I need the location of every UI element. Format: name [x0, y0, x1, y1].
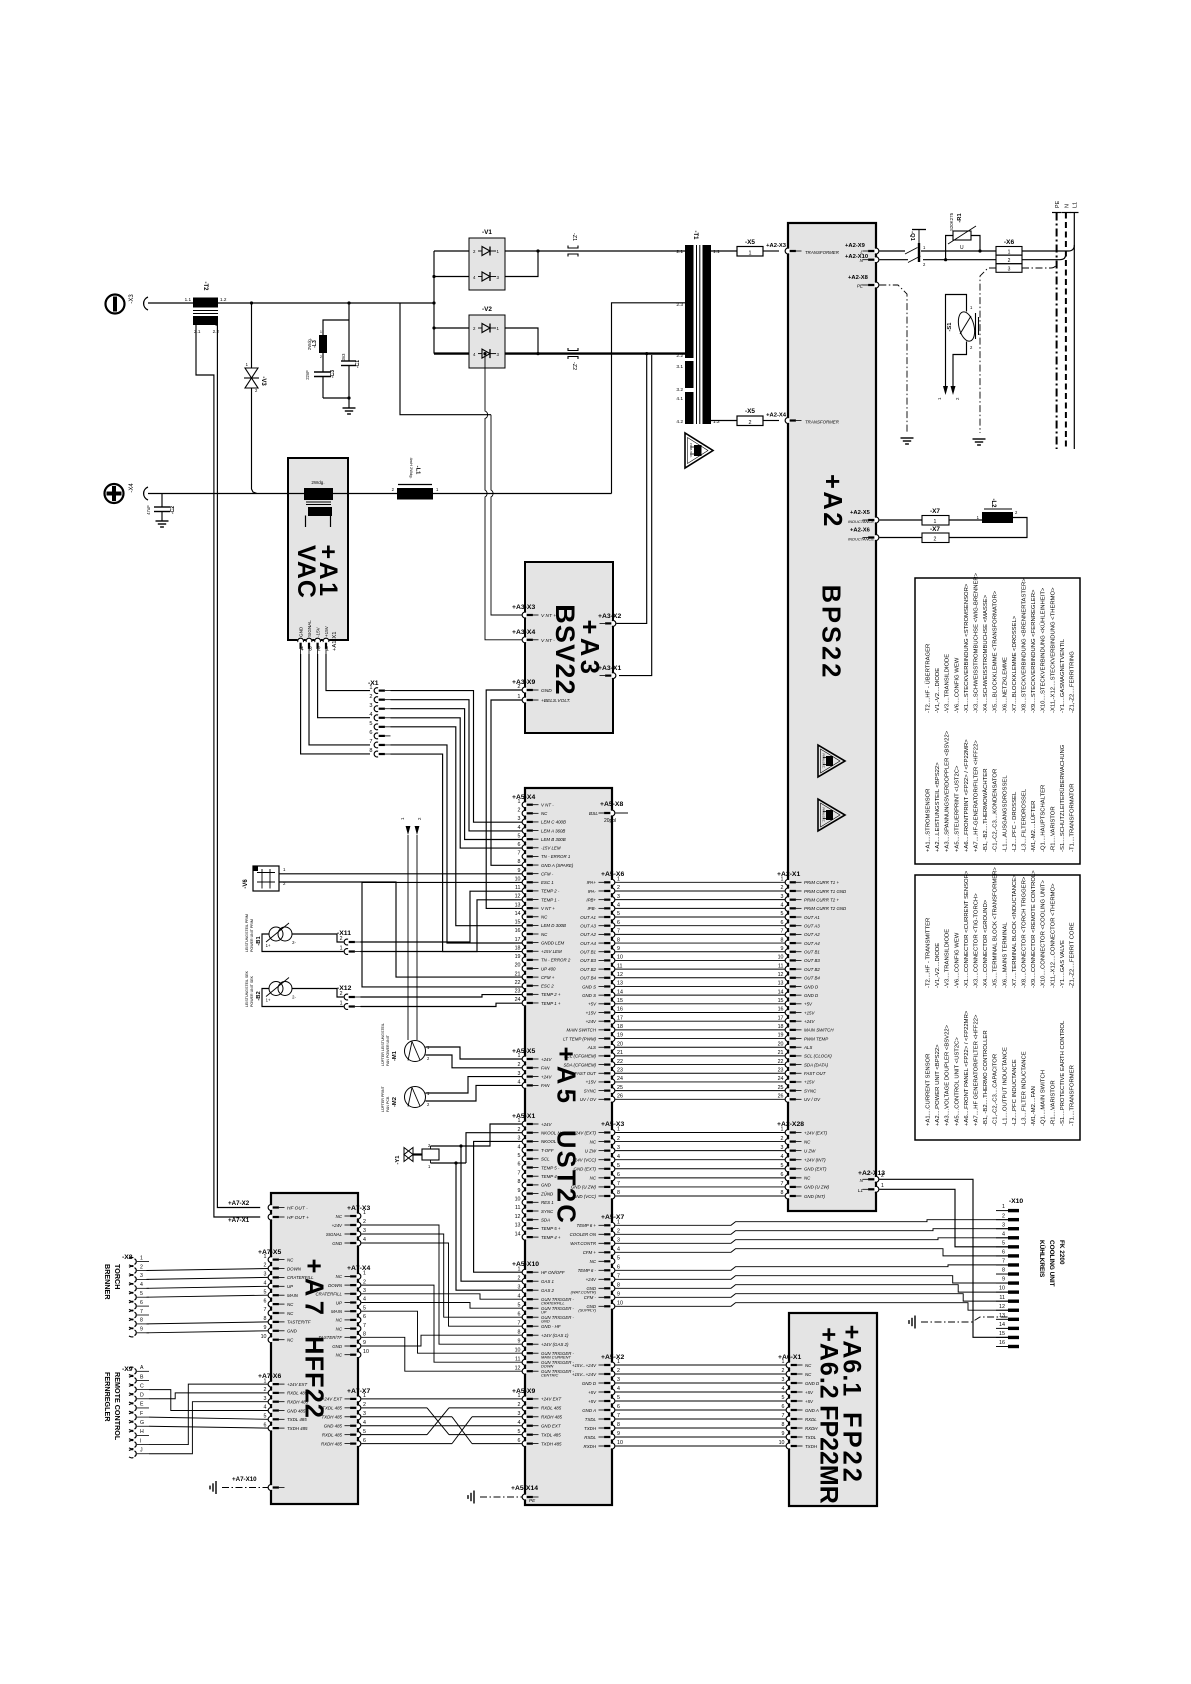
- svg-text:MAIN: MAIN: [331, 1309, 343, 1314]
- svg-text:NC: NC: [336, 1274, 343, 1279]
- svg-text:NC: NC: [541, 932, 548, 937]
- wires: -X1 to +A5-X4 (sensor bundle): [391, 691, 523, 952]
- svg-text:OUT A4: OUT A4: [804, 941, 820, 946]
- svg-text:2: 2: [363, 1279, 366, 1285]
- svg-text:1: 1: [617, 1127, 620, 1133]
- svg-text:+A3-X3: +A3-X3: [512, 604, 535, 611]
- wires: +A3-X9 to +A5-X4: [486, 690, 522, 908]
- svg-text:-V3....TRANSILDIODE: -V3....TRANSILDIODE: [945, 929, 951, 988]
- svg-text:REMOTE CONTROL: REMOTE CONTROL: [113, 1372, 122, 1441]
- svg-text:16: 16: [999, 1340, 1005, 1346]
- connector +A6-X1: [778, 1354, 820, 1449]
- svg-text:+24V (GAS 1): +24V (GAS 1): [541, 1333, 569, 1338]
- svg-text:6: 6: [518, 1311, 521, 1317]
- svg-text:-X7....TERMINAL BLOCK <INDUCTA: -X7....TERMINAL BLOCK <INDUCTANCE>: [1012, 874, 1018, 988]
- svg-text:HF ON/OFF: HF ON/OFF: [541, 1270, 565, 1275]
- svg-text:-L3....FILTERDROSSEL: -L3....FILTERDROSSEL: [1022, 788, 1028, 852]
- svg-text:RXDH: RXDH: [584, 1444, 597, 1449]
- main transformer -T1: [676, 231, 720, 426]
- svg-text:+A7-X3: +A7-X3: [347, 1205, 370, 1212]
- svg-text:VAC: VAC: [292, 545, 320, 599]
- svg-text:RES 1: RES 1: [541, 1200, 554, 1205]
- svg-text:C: C: [140, 1383, 144, 1389]
- svg-text:9: 9: [518, 1188, 521, 1194]
- svg-text:1: 1: [1002, 1204, 1005, 1210]
- svg-text:L1: L1: [858, 1188, 864, 1193]
- mains terminal -X6: [996, 239, 1022, 273]
- fan -M2: [381, 1077, 522, 1112]
- svg-text:5: 5: [518, 1153, 521, 1159]
- svg-text:GAS 2: GAS 2: [541, 1288, 554, 1293]
- svg-text:+A7-X4: +A7-X4: [347, 1265, 370, 1272]
- wires: +A5-X7 to -X10: [615, 1220, 1008, 1311]
- svg-text:20: 20: [617, 1041, 623, 1047]
- pin +A2-X3 TRANSFORMER: [766, 243, 840, 255]
- svg-text:5: 5: [369, 721, 372, 727]
- svg-text:+A2....POWER UNIT <BPS22>: +A2....POWER UNIT <BPS22>: [935, 1044, 941, 1126]
- svg-text:5: 5: [363, 1429, 366, 1435]
- wires: -Y1 to +A5: [431, 1124, 523, 1290]
- svg-text:-V6: -V6: [243, 879, 249, 889]
- svg-text:-X7: -X7: [930, 508, 940, 515]
- svg-text:+15V LEM: +15V LEM: [541, 949, 562, 954]
- voltage doubler block +A3 BSV22: [525, 562, 613, 733]
- svg-text:5: 5: [518, 1302, 521, 1308]
- svg-text:FAN: FAN: [541, 1083, 550, 1088]
- svg-text:TXDH: TXDH: [584, 1426, 597, 1431]
- svg-text:NC: NC: [590, 1259, 597, 1264]
- svg-text:3: 3: [369, 703, 372, 709]
- svg-text:2-: 2-: [292, 940, 296, 945]
- svg-text:TXDL: TXDL: [805, 1435, 817, 1440]
- svg-text:PE: PE: [1055, 200, 1061, 208]
- svg-text:-X3: -X3: [129, 294, 135, 304]
- svg-text:ALS: ALS: [803, 1045, 812, 1050]
- capacitor -C2 47uF: [146, 494, 176, 522]
- svg-text:NC: NC: [805, 1372, 812, 1377]
- svg-text:7: 7: [518, 1170, 521, 1176]
- svg-text:+24V EXT: +24V EXT: [541, 1397, 561, 1402]
- svg-text:23: 23: [617, 1067, 623, 1073]
- svg-text:-Z2: -Z2: [571, 362, 577, 370]
- svg-text:5: 5: [518, 833, 521, 839]
- svg-text:TEMP 2 +: TEMP 2 +: [541, 992, 561, 997]
- svg-text:TEMP 5 -: TEMP 5 -: [541, 1165, 560, 1170]
- svg-text:5: 5: [264, 1289, 267, 1295]
- current transformer icon in +A1: [304, 480, 333, 527]
- svg-text:TXDH 485: TXDH 485: [322, 1415, 343, 1420]
- svg-text:RXDL: RXDL: [584, 1435, 596, 1440]
- svg-text:+A3....VOLTAGE DOUPLER <BSV22>: +A3....VOLTAGE DOUPLER <BSV22>: [945, 1024, 951, 1126]
- svg-text:3: 3: [363, 1411, 366, 1417]
- svg-text:+A7-X1: +A7-X1: [228, 1217, 250, 1224]
- svg-text:PRIM./SEC.: PRIM./SEC.: [822, 753, 826, 768]
- svg-text:4: 4: [518, 1293, 521, 1299]
- svg-text:-V2: -V2: [482, 306, 492, 313]
- svg-text:CFM +: CFM +: [583, 1250, 597, 1255]
- svg-text:GND: GND: [287, 1329, 298, 1334]
- svg-text:TEMP 1 -: TEMP 1 -: [541, 897, 560, 902]
- wires: +A5-X6 to +A2-X1: [615, 882, 785, 1099]
- svg-text:PRIM CURR T1 +: PRIM CURR T1 +: [804, 880, 839, 885]
- svg-text:-X4: -X4: [129, 483, 135, 493]
- svg-text:PRIM./SEC.: PRIM./SEC.: [822, 807, 826, 822]
- svg-text:3: 3: [518, 816, 521, 822]
- svg-text:8: 8: [1002, 1268, 1005, 1274]
- svg-text:-X5: -X5: [745, 239, 755, 246]
- svg-text:1: 1: [781, 877, 784, 883]
- svg-text:FP22MR: FP22MR: [815, 1405, 843, 1504]
- svg-text:3: 3: [363, 1228, 366, 1234]
- svg-text:GND (U ZW): GND (U ZW): [571, 1185, 597, 1190]
- wires: +A5-X2 to +A6-X1: [615, 1365, 786, 1446]
- svg-text:3: 3: [782, 1377, 785, 1383]
- svg-text:1: 1: [749, 251, 752, 257]
- svg-text:+A2-X9: +A2-X9: [845, 243, 866, 249]
- svg-text:INDUCTANCE: INDUCTANCE: [848, 519, 874, 524]
- svg-text:TEMP 2 -: TEMP 2 -: [541, 889, 560, 894]
- svg-text:-X1....CONNECTOR <CURRENT SENS: -X1....CONNECTOR <CURRENT SENSOR>: [964, 870, 970, 988]
- remote connector -X9: [122, 1365, 149, 1458]
- filter network -L3 -C1 -C3: [305, 301, 361, 408]
- svg-text:GND 485: GND 485: [287, 1408, 306, 1413]
- svg-text:OUT B1: OUT B1: [804, 950, 820, 955]
- svg-text:GND S: GND S: [582, 984, 596, 989]
- svg-text:-Z1: -Z1: [571, 233, 577, 241]
- label KUEHLKREIS COOLING UNIT FK 2200: [1038, 1240, 1065, 1287]
- HF transformer -T2: [185, 282, 227, 335]
- svg-text:LEM C 400B: LEM C 400B: [541, 820, 566, 825]
- svg-text:14: 14: [999, 1322, 1005, 1328]
- svg-text:4: 4: [363, 1297, 366, 1303]
- svg-text:6: 6: [518, 1162, 521, 1168]
- svg-text:1: 1: [264, 1254, 267, 1260]
- svg-text:GND D: GND D: [804, 984, 819, 989]
- svg-text:TEMP 4 -: TEMP 4 -: [541, 1174, 560, 1179]
- svg-text:11: 11: [515, 1205, 521, 1211]
- svg-text:-X11,-X12....CONNECTOR <THERMO: -X11,-X12....CONNECTOR <THERMO>: [1050, 883, 1056, 988]
- svg-text:+5V: +5V: [805, 1390, 814, 1395]
- svg-text:+A3-X1: +A3-X1: [598, 665, 621, 672]
- svg-text:RXDL 485: RXDL 485: [287, 1391, 308, 1396]
- pin +A2-X10 N: [845, 254, 879, 263]
- svg-text:CFM -: CFM -: [541, 871, 554, 876]
- svg-text:2: 2: [264, 1263, 267, 1269]
- svg-text:2: 2: [518, 1275, 521, 1281]
- svg-text:26: 26: [617, 1094, 623, 1100]
- svg-text:-Y1: -Y1: [395, 1155, 401, 1165]
- front panel block +A6.1 FP22 / +A6.2 FP22MR: [789, 1313, 877, 1506]
- svg-text:14: 14: [515, 911, 521, 917]
- svg-text:T-OFF: T-OFF: [541, 1148, 554, 1153]
- svg-text:3: 3: [781, 894, 784, 900]
- svg-text:8: 8: [518, 1179, 521, 1185]
- svg-text:6: 6: [617, 1404, 620, 1410]
- torch connector -X8: [122, 1254, 149, 1337]
- svg-text:+A6.2: +A6.2: [815, 1327, 843, 1399]
- svg-text:NC: NC: [590, 1176, 597, 1181]
- svg-text:SCL (CFGMEM): SCL (CFGMEM): [564, 1054, 597, 1059]
- terminal block -X7 / 1: [879, 508, 982, 525]
- svg-text:SIGNAL: SIGNAL: [326, 1232, 343, 1237]
- svg-text:1: 1: [518, 1118, 521, 1124]
- svg-text:F: F: [140, 1411, 143, 1417]
- terminal block -X5 / 1: [711, 239, 780, 257]
- warning triangle PRIM/SEC (near T1): [685, 433, 713, 468]
- svg-text:GND (VCC): GND (VCC): [573, 1194, 597, 1199]
- wire: bold bus to +A3-X4: [483, 352, 522, 640]
- svg-text:+A2....LEISTUNGSTEIL <BPS22>: +A2....LEISTUNGSTEIL <BPS22>: [935, 762, 941, 852]
- svg-text:22nF: 22nF: [305, 370, 310, 380]
- svg-text:RXDH 485: RXDH 485: [321, 1441, 343, 1446]
- wire: -V2 outputs (bold) with ferrite -Z2: [505, 328, 685, 355]
- svg-text:2: 2: [1002, 1213, 1005, 1219]
- svg-text:6: 6: [363, 1314, 366, 1320]
- svg-text:OUT A2: OUT A2: [804, 932, 820, 937]
- svg-text:14: 14: [515, 1231, 521, 1237]
- svg-text:BSL: BSL: [589, 811, 598, 817]
- svg-text:2: 2: [617, 1229, 620, 1235]
- connector +A5-X3: [571, 1121, 625, 1199]
- svg-text:6: 6: [617, 1172, 620, 1178]
- svg-text:1: 1: [326, 647, 329, 653]
- svg-text:+A1-X1: +A1-X1: [332, 632, 338, 652]
- svg-text:+15V: +15V: [586, 1080, 597, 1085]
- svg-text:13: 13: [515, 902, 521, 908]
- svg-text:PRIM CURR T1 GND: PRIM CURR T1 GND: [804, 889, 847, 894]
- svg-text:5: 5: [781, 1163, 784, 1169]
- svg-text:NC: NC: [805, 1363, 812, 1368]
- svg-text:OUT A1: OUT A1: [580, 915, 596, 920]
- svg-text:LEISTUNGSTEIL SEK: LEISTUNGSTEIL SEK: [245, 970, 249, 1007]
- wire: -T2 secondary to +A7 HF input: [196, 325, 260, 1217]
- svg-text:+A2-X10: +A2-X10: [845, 254, 868, 260]
- svg-text:(SUPPLY): (SUPPLY): [578, 1308, 596, 1313]
- svg-text:1: 1: [881, 1183, 884, 1189]
- svg-text:-L3: -L3: [312, 340, 318, 348]
- svg-text:+15V: +15V: [804, 1010, 815, 1015]
- svg-text:-15V LEM: -15V LEM: [541, 846, 561, 851]
- svg-text:+24V: +24V: [586, 1019, 597, 1024]
- svg-text:6: 6: [264, 1298, 267, 1304]
- svg-text:-T1: -T1: [692, 231, 698, 241]
- connector +A5-X8 (BSL): [589, 801, 628, 824]
- svg-text:2: 2: [617, 885, 620, 891]
- svg-text:-X10....STECKVERBINDUNG <KÜHLE: -X10....STECKVERBINDUNG <KÜHLEINHEIT>: [1040, 587, 1047, 713]
- svg-text:14: 14: [617, 989, 623, 995]
- svg-text:+A3-X9: +A3-X9: [512, 679, 535, 686]
- svg-text:8: 8: [782, 1422, 785, 1428]
- svg-text:1.2: 1.2: [713, 419, 720, 425]
- output inductance -L1: [392, 457, 439, 499]
- svg-text:+15V...+24V: +15V...+24V: [572, 1372, 597, 1377]
- svg-text:-X7....BLOCKKLEMME <DROSSEL>: -X7....BLOCKKLEMME <DROSSEL>: [1012, 615, 1018, 713]
- svg-text:4mH 2Wdg.: 4mH 2Wdg.: [409, 457, 414, 478]
- svg-text:8: 8: [617, 1422, 620, 1428]
- wire: -X6 PE to ground: [980, 268, 996, 433]
- label BRENNER TORCH: [103, 1264, 122, 1300]
- thermo switch -B2: [245, 970, 344, 1007]
- svg-text:G: G: [140, 1420, 144, 1426]
- svg-text:-M1,-M2....LÜFTER: -M1,-M2....LÜFTER: [1030, 801, 1037, 852]
- svg-text:+A2: +A2: [818, 474, 846, 529]
- svg-text:+A7....HF-GENERATOR/FILTER <HF: +A7....HF-GENERATOR/FILTER <HFF22>: [974, 740, 980, 852]
- svg-text:9: 9: [781, 946, 784, 952]
- wire: AC tap to +A3-X3: [400, 303, 522, 615]
- svg-text:A: A: [140, 1365, 144, 1371]
- svg-text:RXDH 485: RXDH 485: [541, 1415, 563, 1420]
- svg-text:11: 11: [515, 1356, 521, 1362]
- svg-text:+A5-X3: +A5-X3: [601, 1121, 624, 1128]
- svg-text:3: 3: [617, 894, 620, 900]
- svg-text:TRANSFORMER: TRANSFORMER: [805, 250, 840, 255]
- svg-text:TASTER/TF: TASTER/TF: [318, 1335, 342, 1340]
- svg-text:OUT B3: OUT B3: [580, 958, 596, 963]
- wire: switch to -X6 terminal: [921, 251, 996, 260]
- svg-text:MAIN SWITCH: MAIN SWITCH: [566, 1028, 596, 1033]
- svg-text:WAT.CONTR: WAT.CONTR: [570, 1241, 597, 1246]
- svg-text:-R1....VARISTOR: -R1....VARISTOR: [1050, 1080, 1056, 1126]
- svg-text:+24V (INT): +24V (INT): [804, 1158, 826, 1163]
- svg-text:18: 18: [617, 1024, 623, 1030]
- svg-text:HF OUT -: HF OUT -: [287, 1206, 308, 1212]
- svg-text:IPA+: IPA+: [587, 880, 597, 885]
- svg-text:1: 1: [320, 330, 322, 334]
- svg-text:9: 9: [617, 1431, 620, 1437]
- svg-text:-X9....CONNECTOR <REMOTE CONTR: -X9....CONNECTOR <REMOTE CONTROL>: [1031, 870, 1037, 988]
- svg-text:2: 2: [340, 936, 343, 942]
- svg-text:6: 6: [782, 1404, 785, 1410]
- svg-text:+A5-X9: +A5-X9: [512, 1388, 535, 1395]
- svg-text:+A2-X6: +A2-X6: [850, 528, 871, 534]
- svg-text:TEMP 1 +: TEMP 1 +: [541, 1001, 561, 1006]
- svg-text:-L3....FILTER INDUCTANCE: -L3....FILTER INDUCTANCE: [1022, 1051, 1028, 1126]
- svg-text:-V1,-V2....DIODE: -V1,-V2....DIODE: [935, 943, 941, 988]
- svg-text:CENTRIC: CENTRIC: [541, 1373, 558, 1378]
- svg-text:GND A: GND A: [805, 1408, 819, 1413]
- wires: -X8 to +A7-X5: [147, 1269, 268, 1333]
- svg-text:+A5....STEUERPRINT <UST2C>: +A5....STEUERPRINT <UST2C>: [954, 765, 960, 852]
- svg-text:2: 2: [369, 694, 372, 700]
- svg-text:12: 12: [778, 972, 784, 978]
- svg-text:4: 4: [264, 1281, 267, 1287]
- svg-text:12: 12: [515, 1214, 521, 1220]
- svg-text:-T2....HF - TRANSMITTER: -T2....HF - TRANSMITTER: [926, 918, 932, 988]
- svg-text:OUT A1: OUT A1: [804, 915, 820, 920]
- svg-text:3: 3: [617, 1145, 620, 1151]
- wires: +A5-X3 to +A2-X28: [615, 1133, 785, 1196]
- svg-text:KÜHLKREIS: KÜHLKREIS: [1038, 1240, 1047, 1278]
- svg-text:-S1....PROTECTIVE EARTH CONTRO: -S1....PROTECTIVE EARTH CONTROL: [1060, 1020, 1066, 1126]
- svg-text:3: 3: [140, 1273, 143, 1279]
- svg-text:TEMP 4 +: TEMP 4 +: [541, 1235, 561, 1240]
- svg-text:BPS22: BPS22: [817, 585, 845, 681]
- svg-text:+24V (GAS 2): +24V (GAS 2): [541, 1342, 569, 1347]
- svg-text:OUT A2: OUT A2: [580, 932, 596, 937]
- wires: +A7-X7 to +A5-X9 (crossed RS485): [361, 1399, 522, 1444]
- svg-text:-15V: -15V: [315, 626, 320, 637]
- svg-text:6: 6: [1002, 1250, 1005, 1256]
- svg-text:LEM B 300B: LEM B 300B: [541, 837, 566, 842]
- svg-text:3: 3: [363, 1288, 366, 1294]
- svg-text:3: 3: [1002, 1222, 1005, 1228]
- pin +A2-X4 TRANSFORMER: [766, 413, 840, 425]
- wire: -L2 loop to -X7 / 2: [949, 518, 1027, 538]
- svg-text:TN - ERROR 2: TN - ERROR 2: [541, 958, 571, 963]
- svg-text:10: 10: [363, 1349, 369, 1355]
- svg-text:U: U: [960, 245, 964, 251]
- svg-text:LÜFTER PRINT: LÜFTER PRINT: [381, 1085, 385, 1112]
- svg-text:2-: 2-: [292, 995, 296, 1000]
- svg-text:8: 8: [617, 1283, 620, 1289]
- svg-text:SIGNAL: SIGNAL: [307, 620, 312, 637]
- svg-text:2: 2: [617, 1136, 620, 1142]
- svg-text:NC: NC: [541, 811, 548, 816]
- svg-text:SYNC: SYNC: [804, 1088, 817, 1093]
- svg-text:U ZW: U ZW: [804, 1148, 816, 1153]
- svg-text:NC: NC: [287, 1302, 294, 1307]
- svg-text:GND: GND: [332, 1241, 343, 1246]
- svg-text:DOWN: DOWN: [328, 1283, 343, 1288]
- svg-text:-X5: -X5: [745, 408, 755, 415]
- svg-text:-C1,-C2,-C3....CAPACITOR: -C1,-C2,-C3....CAPACITOR: [993, 1054, 999, 1126]
- svg-text:12: 12: [515, 1365, 521, 1371]
- svg-text:3: 3: [518, 1411, 521, 1417]
- wires: +A1-X1 to -X1: [301, 654, 370, 754]
- svg-text:GND (EXT): GND (EXT): [804, 1167, 827, 1172]
- svg-text:+A5-X8: +A5-X8: [600, 801, 623, 808]
- svg-text:6: 6: [617, 920, 620, 926]
- svg-text:2.2: 2.2: [213, 329, 220, 334]
- connector +A7-X3: [326, 1205, 371, 1246]
- svg-text:-X4....CONNECTOR <GROUND>: -X4....CONNECTOR <GROUND>: [983, 899, 989, 988]
- svg-text:-R1: -R1: [957, 213, 963, 223]
- svg-text:-X11,-X12....STECKVERBINDUNG <: -X11,-X12....STECKVERBINDUNG <THERMO>: [1050, 587, 1056, 713]
- svg-text:8: 8: [617, 1190, 620, 1196]
- svg-text:OUT B3: OUT B3: [804, 958, 820, 963]
- svg-text:-B1, -B2....THERMOWÄCHTER: -B1, -B2....THERMOWÄCHTER: [982, 769, 989, 852]
- svg-text:MAIN SWITCH: MAIN SWITCH: [804, 1028, 834, 1033]
- connector +A7-X4: [315, 1265, 370, 1358]
- svg-text:8: 8: [781, 1190, 784, 1196]
- svg-text:17: 17: [515, 937, 521, 943]
- svg-text:12: 12: [515, 894, 521, 900]
- wire: -X4 output to -L1 and T1 tap 2.3: [148, 303, 685, 494]
- pin +A2-X9 L: [845, 243, 879, 255]
- svg-text:+A6....FRONT PANEL <FP22> / <F: +A6....FRONT PANEL <FP22> / <FP22MR>: [964, 1010, 970, 1126]
- svg-text:-V1,-V2....DIODE: -V1,-V2....DIODE: [935, 668, 941, 713]
- svg-text:3n3: 3n3: [341, 353, 346, 361]
- connector -X3 (TIG torch): [106, 294, 149, 314]
- svg-text:V NT -: V NT -: [541, 638, 555, 644]
- pin +A2-X6 inductance: [848, 528, 879, 542]
- connector +A5-X10: [512, 1261, 575, 1378]
- svg-text:1.1: 1.1: [185, 297, 192, 302]
- svg-text:2: 2: [318, 647, 321, 653]
- svg-text:+A2-X3: +A2-X3: [766, 243, 787, 249]
- svg-text:12: 12: [617, 972, 623, 978]
- svg-text:-Z1,-Z2....FERRITRING: -Z1,-Z2....FERRITRING: [1070, 651, 1076, 713]
- svg-text:1.2: 1.2: [220, 297, 227, 302]
- pin +A2-X8 PE: [848, 275, 879, 289]
- svg-text:TN - ERROR 1: TN - ERROR 1: [541, 854, 571, 859]
- svg-text:+A3-X4: +A3-X4: [512, 629, 535, 636]
- svg-text:GND: GND: [332, 1344, 343, 1349]
- svg-text:9: 9: [518, 868, 521, 874]
- diode module -V2: [469, 306, 505, 368]
- svg-text:1: 1: [617, 877, 620, 883]
- svg-text:+A6....FRONTPRINT <FP22> / <FP: +A6....FRONTPRINT <FP22> / <FP22MR>: [964, 739, 970, 852]
